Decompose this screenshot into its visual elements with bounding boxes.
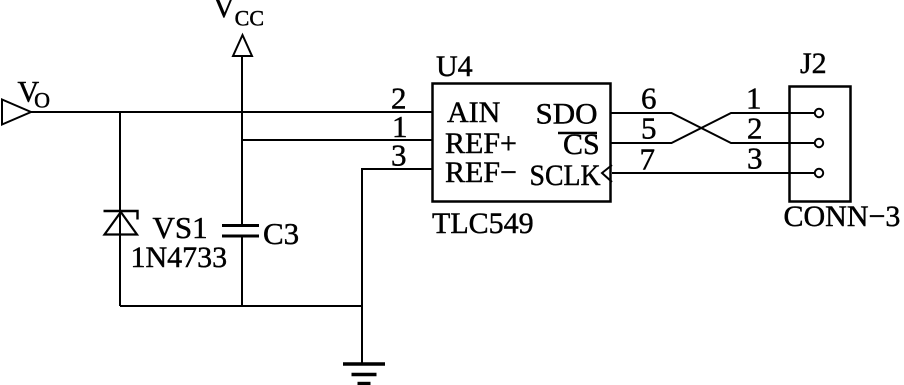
svg-text:3: 3 bbox=[391, 138, 407, 173]
svg-text:J2: J2 bbox=[800, 47, 827, 80]
J2 pin 2 circle bbox=[815, 139, 823, 147]
wire U4 pin 6 SDO to J2 pin 2 bbox=[611, 113, 814, 143]
power VCC arrow symbol bbox=[233, 35, 252, 56]
connector J2 body bbox=[790, 87, 851, 202]
svg-text:CS: CS bbox=[563, 128, 600, 161]
svg-text:C3: C3 bbox=[263, 216, 299, 251]
wire VCC to U4 pin 1 REF+ bbox=[242, 139, 432, 141]
zener diode VS1 triangle bbox=[105, 212, 138, 235]
wire C3 bottom to rail bbox=[241, 237, 243, 306]
svg-text:1N4733: 1N4733 bbox=[131, 241, 228, 274]
J2 pin 1 circle bbox=[815, 109, 823, 117]
svg-text:5: 5 bbox=[641, 111, 657, 146]
svg-text:AIN: AIN bbox=[447, 96, 500, 129]
zener diode VS1 cathode bar bbox=[104, 211, 138, 220]
wire zener branch VO to bottom rail bbox=[119, 112, 121, 306]
J2 pin 3 circle bbox=[815, 169, 823, 177]
svg-text:7: 7 bbox=[640, 142, 656, 177]
wire U4 pin 7 SCLK to J2 pin 3 bbox=[612, 172, 814, 174]
ground symbol bbox=[343, 364, 385, 384]
wire VO to U4 pin 2 AIN bbox=[31, 111, 432, 113]
svg-text:TLC549: TLC549 bbox=[432, 207, 534, 240]
svg-text:REF−: REF− bbox=[445, 156, 517, 189]
capacitor C3 bottom plate bbox=[222, 235, 259, 238]
svg-text:3: 3 bbox=[747, 141, 763, 176]
svg-text:VS1: VS1 bbox=[153, 210, 208, 245]
port VO input triangle bbox=[2, 100, 31, 125]
svg-text:CONN−3: CONN−3 bbox=[784, 200, 901, 233]
svg-text:U4: U4 bbox=[436, 50, 473, 83]
svg-text:SDO: SDO bbox=[536, 98, 598, 131]
wire VCC stem to capacitor C3 bbox=[241, 56, 243, 225]
wire U4 pin 5 CS to J2 pin 1 bbox=[611, 113, 814, 143]
wire U4 pin 3 REF- to ground stem bbox=[362, 169, 432, 363]
pin label CS overline bbox=[558, 132, 597, 134]
clock input arrowhead on SCLK pin bbox=[602, 165, 612, 182]
wire bottom rail bbox=[120, 305, 362, 307]
svg-text:SCLK: SCLK bbox=[530, 159, 601, 192]
IC U4 TLC549 body bbox=[433, 84, 611, 202]
capacitor C3 top plate bbox=[222, 224, 259, 227]
